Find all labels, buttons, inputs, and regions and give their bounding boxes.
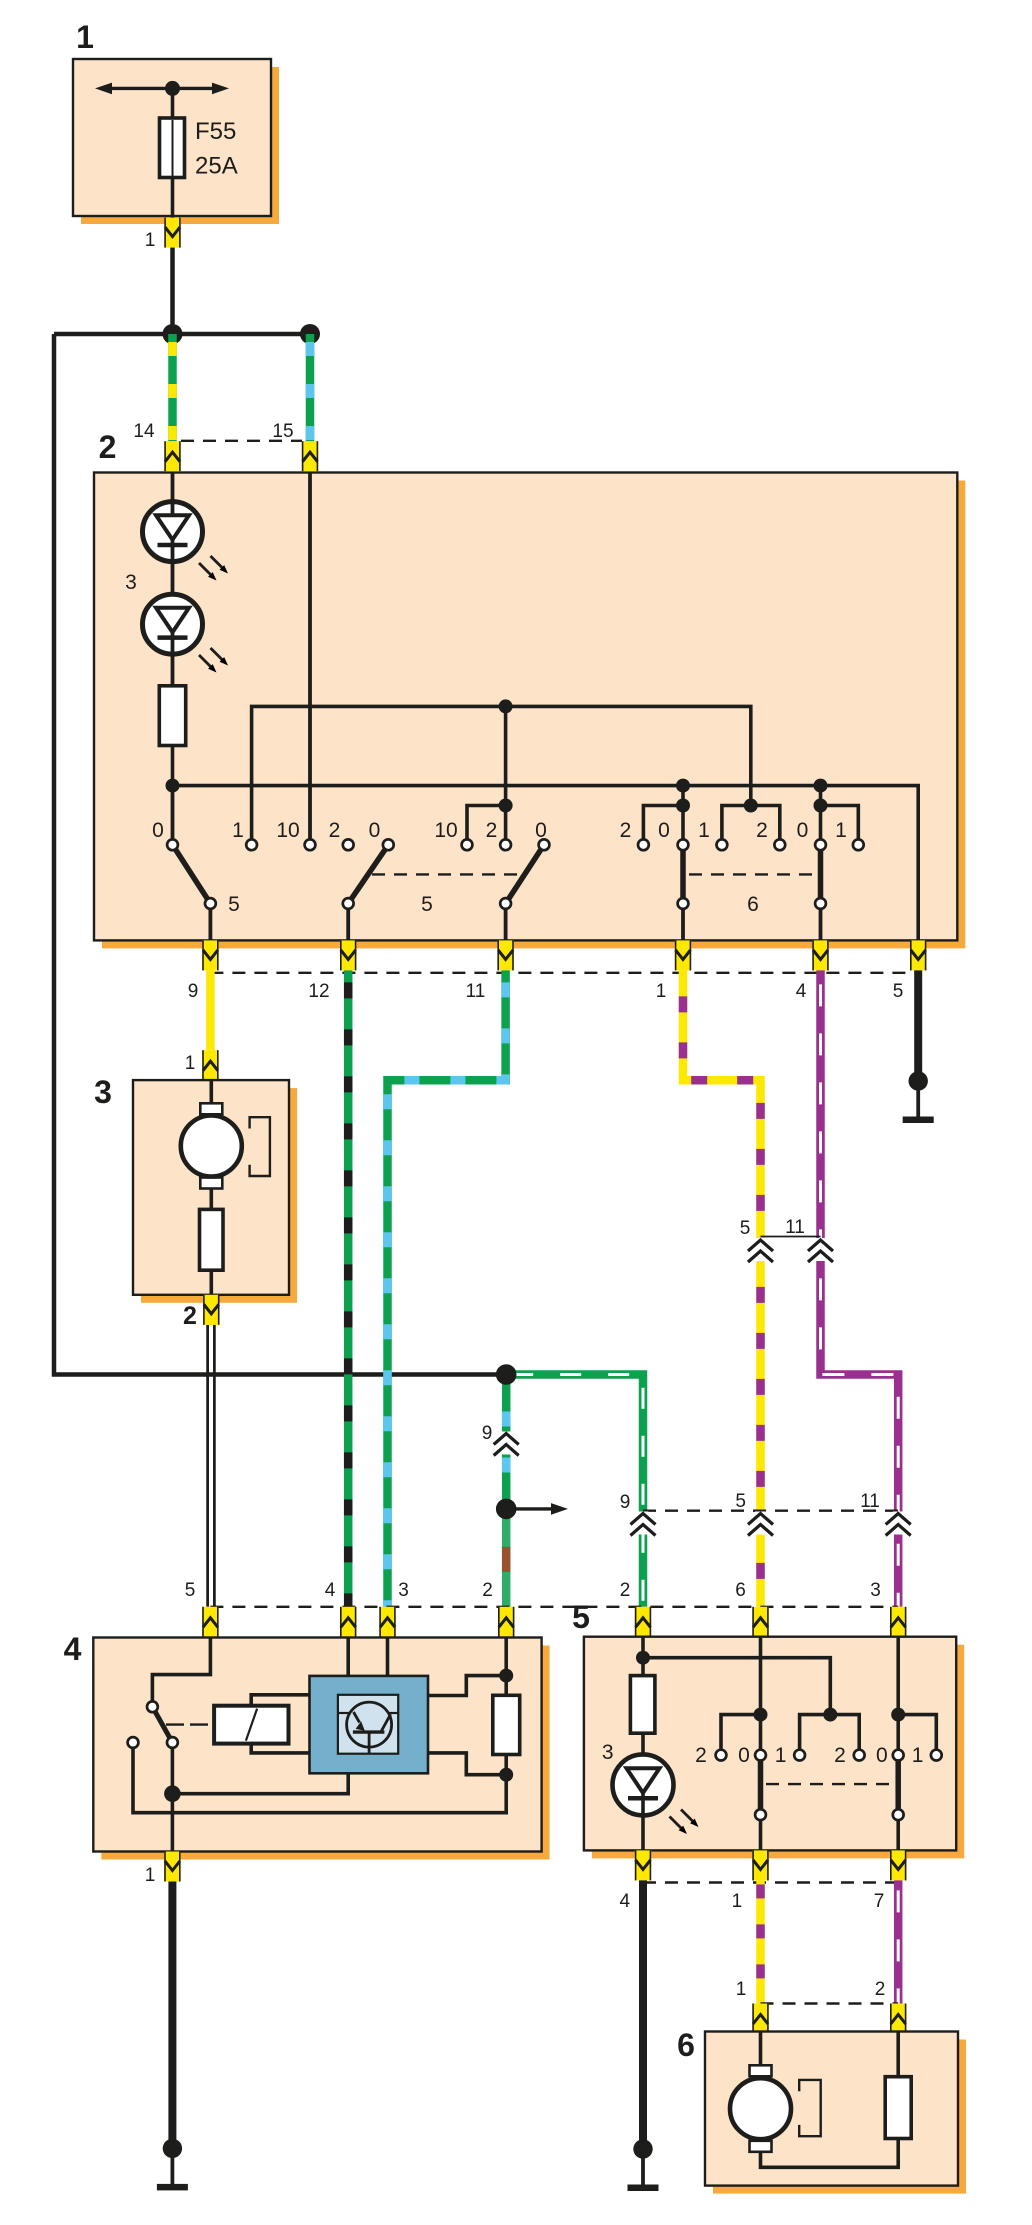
wire motor bottom to resistor bottom bbox=[761, 2139, 899, 2168]
wire black pin1 box4 to ground bbox=[168, 1882, 176, 2149]
LED box5 rays bbox=[670, 1810, 699, 1835]
wire pin15 down to terminal 10 bbox=[308, 473, 312, 845]
svg-text:3: 3 bbox=[398, 1580, 409, 1601]
wire motor to resistor box3 bbox=[210, 1189, 214, 1211]
rail box5 bbox=[643, 1658, 830, 1715]
wire resistor to LED box5 bbox=[641, 1733, 645, 1756]
svg-text:14: 14 bbox=[133, 421, 155, 442]
node bracket x760 box5 bbox=[754, 1708, 768, 1722]
bracket 1-2 middle group bbox=[722, 806, 780, 845]
svg-text:0: 0 bbox=[738, 1744, 750, 1767]
rail 2 horizontal bbox=[173, 786, 919, 941]
wire pin1 box6 to motor bbox=[759, 2032, 763, 2067]
switch contact circles box4 bbox=[128, 1701, 178, 1748]
LED D1 rays bbox=[199, 556, 228, 581]
svg-text:2: 2 bbox=[486, 819, 498, 842]
wire pin4 into bluebox bbox=[346, 1637, 350, 1676]
switch blade 3 bbox=[506, 845, 544, 904]
dashed link blades box5 bbox=[766, 1783, 892, 1785]
dashed connector line breaks row2 bbox=[643, 1509, 898, 1511]
dashed connector line above box6 bbox=[761, 2002, 899, 2004]
relay top lead bbox=[251, 1695, 309, 1706]
svg-text:1: 1 bbox=[656, 981, 667, 1002]
node arrow junction bbox=[496, 1499, 517, 1520]
switch blade box4 bbox=[152, 1707, 172, 1743]
break 9 upper bbox=[494, 1432, 519, 1456]
box 2 (control module) bbox=[94, 473, 957, 941]
svg-text:0: 0 bbox=[369, 819, 381, 842]
connector pin 5 box4 bbox=[202, 1607, 218, 1637]
svg-text:1: 1 bbox=[835, 819, 847, 842]
svg-text:1: 1 bbox=[145, 230, 156, 251]
resistor box5 bbox=[630, 1676, 655, 1734]
svg-text:1: 1 bbox=[732, 1891, 743, 1912]
svg-text:9: 9 bbox=[482, 1423, 493, 1444]
node bracket x683 bbox=[676, 799, 690, 813]
wire pin3 down box5 bbox=[896, 1637, 900, 1749]
motor M box6 bbox=[730, 2065, 821, 2152]
horizontal wire node row bbox=[54, 332, 310, 337]
box 4 shadow bbox=[101, 1646, 549, 1860]
node rail1 x505 bbox=[499, 699, 513, 713]
svg-text:1: 1 bbox=[76, 19, 94, 55]
wire yellow pin9 to box3 bbox=[206, 970, 215, 1050]
switch blade 2 bbox=[348, 845, 388, 904]
LED D1 bbox=[143, 502, 203, 594]
connector pin 6 box5 bbox=[752, 1607, 768, 1637]
svg-text:1: 1 bbox=[736, 1979, 747, 2000]
svg-text:2: 2 bbox=[620, 1580, 631, 1601]
connector pin 2 box6 bbox=[890, 2004, 906, 2034]
wire black pin5 to ground bbox=[914, 970, 922, 1081]
bracket 0-1 right group bbox=[821, 806, 859, 845]
svg-text:9: 9 bbox=[620, 1492, 631, 1513]
wire green/brown to box4 pin2 bbox=[502, 1509, 511, 1607]
connector pins bottom of box2 bbox=[202, 940, 218, 970]
svg-text:1: 1 bbox=[145, 1865, 156, 1886]
resistor in box 2 bbox=[159, 686, 185, 746]
svg-text:2: 2 bbox=[482, 1580, 493, 1601]
connector pin 3 box5 bbox=[890, 1607, 906, 1637]
box 1 (fuse box) bbox=[73, 59, 271, 216]
bracket 1-2 box5 bbox=[800, 1715, 860, 1749]
bluebox right bottom lead bbox=[428, 1753, 506, 1775]
wire green/white junction to box5 pin2 bbox=[506, 1375, 643, 1607]
svg-text:2: 2 bbox=[756, 819, 768, 842]
node A bbox=[163, 324, 183, 344]
wire resistor to pin2 box3 bbox=[210, 1270, 214, 1295]
svg-text:F55: F55 bbox=[195, 118, 236, 145]
wire resistor bottom bbox=[504, 1755, 508, 1775]
connector pin 7 box5 bbox=[890, 1850, 906, 1880]
node bracket x750 bbox=[744, 799, 758, 813]
wire green/lightblue pin11 to box4 pin3 bbox=[388, 970, 506, 1606]
svg-text:5: 5 bbox=[421, 893, 433, 916]
wire bus to fuse bbox=[171, 88, 175, 120]
dashed link blades 2-3 bbox=[372, 873, 527, 875]
dashed connector line below box5 bbox=[643, 1881, 898, 1883]
svg-text:1: 1 bbox=[912, 1744, 924, 1767]
break 11 row1 bbox=[808, 1238, 833, 1262]
svg-text:1: 1 bbox=[232, 819, 244, 842]
node on bus bar bbox=[165, 81, 180, 96]
connector pin 14 bbox=[164, 441, 180, 471]
box 6 shadow bbox=[713, 2040, 966, 2194]
svg-text:5: 5 bbox=[572, 1599, 590, 1635]
wire green/yellow to pin 14 bbox=[168, 334, 177, 441]
node bracket x830 box5 bbox=[823, 1708, 837, 1722]
wire rail1 down to terminal 2 bbox=[504, 706, 508, 844]
arrow to right bbox=[506, 1503, 568, 1515]
svg-text:6: 6 bbox=[735, 1580, 746, 1601]
ground symbol box4 bbox=[157, 2139, 188, 2191]
connector pin 2 box4 bbox=[498, 1607, 514, 1637]
node B bbox=[300, 324, 320, 344]
svg-text:25A: 25A bbox=[195, 153, 238, 180]
wire black pin4 box5 to ground bbox=[639, 1880, 647, 2149]
dashed link blades 4-5 bbox=[689, 873, 814, 875]
box 3 shadow bbox=[141, 1088, 297, 1303]
svg-text:1: 1 bbox=[185, 1053, 196, 1074]
box 2 shadow bbox=[102, 481, 965, 949]
bracket 2-0 box5 bbox=[721, 1715, 761, 1749]
wire purple/white pin4 bbox=[821, 970, 899, 1606]
wire pin1 to node row bbox=[170, 246, 175, 334]
dashed connector line below box2 bbox=[210, 972, 918, 974]
connector pin 2 box5 bbox=[635, 1607, 651, 1637]
relay bottom lead bbox=[251, 1744, 309, 1753]
node rail2 x820 bbox=[814, 779, 828, 793]
wire yellow/purple pin1 to box5 pin6 bbox=[683, 970, 761, 1606]
ground symbol right bbox=[903, 1071, 934, 1123]
switch blade B box5 bbox=[895, 1755, 901, 1815]
svg-text:1: 1 bbox=[698, 819, 710, 842]
wire resistor to rail bbox=[171, 746, 175, 791]
connector pin 15 bbox=[302, 441, 318, 471]
connector pin 1 of box 1 bbox=[164, 218, 180, 248]
wire into motor box3 bbox=[210, 1080, 214, 1105]
svg-text:7: 7 bbox=[874, 1891, 885, 1912]
bluebox right top lead bbox=[428, 1676, 506, 1696]
connector pin 4 box5 bbox=[635, 1850, 651, 1880]
svg-text:6: 6 bbox=[677, 2027, 695, 2063]
wire fuse to pin 1 bbox=[171, 177, 175, 218]
resistor box4 bbox=[493, 1695, 520, 1754]
fuse F55 25A bbox=[160, 118, 185, 178]
svg-text:2: 2 bbox=[875, 1979, 886, 2000]
bracket terminal 10 to node bbox=[467, 806, 506, 845]
node box4 switch bbox=[164, 1785, 181, 1802]
svg-text:2: 2 bbox=[834, 1744, 846, 1767]
connector pin 1 box6 bbox=[752, 2004, 768, 2034]
resistor box3 bbox=[200, 1209, 224, 1270]
break 5 row1 bbox=[748, 1238, 773, 1262]
line between breaks row1 bbox=[761, 1236, 821, 1238]
connector pin 1 of box 3 bbox=[202, 1050, 218, 1080]
wire pin2 box6 to resistor bbox=[896, 2032, 900, 2077]
node bracket x820 bbox=[814, 799, 828, 813]
bracket 2-0 left group bbox=[643, 806, 683, 845]
wire rail2 to terminal 0 (x683) bbox=[681, 786, 685, 844]
node bracket x898 box5 bbox=[891, 1708, 905, 1722]
ground symbol box5 bbox=[628, 2139, 659, 2191]
node rail2 x683 bbox=[676, 779, 690, 793]
wires bottom contacts box5 bbox=[759, 1815, 763, 1852]
LED D2 bbox=[143, 594, 203, 686]
bus bar arrow line bbox=[95, 83, 229, 95]
wire yellow/purple pin1 box5 to box6 bbox=[756, 1880, 765, 2003]
node rail2-resistor bbox=[166, 779, 180, 793]
svg-text:0: 0 bbox=[152, 819, 164, 842]
terminal circles row box2 bbox=[167, 839, 864, 909]
terminal labels box2 bbox=[152, 819, 847, 842]
bracket 0-1 box5 bbox=[898, 1715, 936, 1749]
svg-text:5: 5 bbox=[893, 981, 904, 1002]
svg-text:4: 4 bbox=[796, 981, 807, 1002]
break 5 row2 bbox=[748, 1512, 773, 1536]
svg-text:4: 4 bbox=[620, 1891, 631, 1912]
box 1 shadow bbox=[81, 67, 279, 224]
box 3 (washer pump) bbox=[133, 1080, 289, 1295]
wire pin6 down box5 bbox=[759, 1637, 763, 1749]
svg-text:5: 5 bbox=[228, 893, 240, 916]
svg-text:1: 1 bbox=[775, 1744, 787, 1767]
inner square transistor block bbox=[338, 1695, 398, 1754]
terminal circles box5 bbox=[716, 1750, 942, 1820]
resistor box6 bbox=[885, 2077, 911, 2139]
wire pin14 into box bbox=[171, 473, 175, 504]
svg-text:11: 11 bbox=[466, 981, 486, 1002]
svg-text:2: 2 bbox=[99, 429, 117, 465]
blue electronics box bbox=[310, 1676, 429, 1773]
wire pin5 to switch bbox=[152, 1637, 210, 1701]
terminal labels box5 bbox=[695, 1744, 923, 1767]
switch blade 5 (closed) bbox=[818, 845, 824, 904]
left long wire down bbox=[54, 334, 506, 1375]
connector pin 3 box4 bbox=[379, 1607, 395, 1637]
svg-text:3: 3 bbox=[602, 1741, 614, 1764]
wire pin2 box5 to resistor bbox=[641, 1637, 645, 1676]
svg-text:9: 9 bbox=[188, 981, 199, 1002]
connector pin 1 box5 bbox=[752, 1850, 768, 1880]
node bluebox top lead bbox=[499, 1669, 513, 1683]
svg-text:12: 12 bbox=[308, 981, 329, 1002]
wire green/lightblue junction down bbox=[502, 1375, 511, 1509]
wire pin3 into bluebox bbox=[386, 1637, 390, 1676]
svg-text:2: 2 bbox=[183, 1302, 197, 1330]
svg-text:2: 2 bbox=[329, 819, 341, 842]
wire green/black pin12 to box4 pin4 bbox=[344, 970, 353, 1606]
svg-text:0: 0 bbox=[658, 819, 670, 842]
box 6 (washer pump 2) bbox=[705, 2032, 958, 2186]
wires bottom contacts to box edge bbox=[210, 904, 820, 941]
transistor Q1 bbox=[338, 1702, 398, 1754]
svg-text:11: 11 bbox=[785, 1217, 805, 1238]
connector pin 1 box4 bbox=[164, 1852, 180, 1882]
svg-text:2: 2 bbox=[695, 1744, 707, 1767]
svg-text:11: 11 bbox=[860, 1491, 880, 1512]
svg-text:3: 3 bbox=[870, 1580, 881, 1601]
switch blade 4 (closed) bbox=[680, 845, 686, 904]
svg-text:2: 2 bbox=[620, 819, 632, 842]
LED box5 bbox=[613, 1754, 674, 1851]
motor M box3 bbox=[181, 1103, 270, 1188]
svg-text:5: 5 bbox=[740, 1218, 751, 1239]
svg-text:3: 3 bbox=[125, 571, 137, 594]
svg-text:0: 0 bbox=[876, 1744, 888, 1767]
svg-text:10: 10 bbox=[276, 819, 299, 842]
svg-text:15: 15 bbox=[272, 421, 293, 442]
wire node to terminal 0 bbox=[171, 786, 175, 844]
svg-text:4: 4 bbox=[325, 1580, 336, 1601]
svg-text:10: 10 bbox=[434, 819, 457, 842]
wire rail2 to terminal 0 (x820) bbox=[819, 786, 823, 844]
node box5 top bbox=[636, 1651, 650, 1665]
node resistor bottom bbox=[499, 1768, 513, 1782]
node main junction y1374 bbox=[496, 1364, 517, 1385]
box 5 shadow bbox=[592, 1645, 964, 1859]
dashed connector line above box4/box5 bbox=[210, 1606, 898, 1608]
svg-text:4: 4 bbox=[64, 1631, 82, 1667]
break 11 row2 bbox=[886, 1512, 911, 1536]
connector pin 4 box4 bbox=[340, 1607, 356, 1637]
wire node to pin1 box4 bbox=[171, 1794, 175, 1852]
wire node to bluebox bottom bbox=[172, 1773, 348, 1793]
svg-text:0: 0 bbox=[535, 819, 547, 842]
dashed mech link to relay bbox=[166, 1723, 212, 1725]
dashed connector line pins 14-15 bbox=[181, 440, 302, 442]
svg-text:6: 6 bbox=[747, 893, 759, 916]
wire purple/white pin7 box5 to box6 bbox=[894, 1880, 903, 2003]
connector pin 2 of box 3 bbox=[203, 1295, 219, 1325]
svg-text:5: 5 bbox=[735, 1491, 746, 1512]
relay coil box4 bbox=[214, 1706, 288, 1744]
wire white box3 to box4 pin5 bbox=[206, 1325, 216, 1607]
svg-text:3: 3 bbox=[94, 1074, 112, 1110]
rail 1 horizontal bbox=[252, 706, 751, 844]
wire contact to node box4 bbox=[171, 1743, 175, 1794]
box 5 (switch module) bbox=[584, 1637, 956, 1851]
node bracket x505 bbox=[499, 799, 513, 813]
svg-text:5: 5 bbox=[185, 1580, 196, 1601]
wire pin2 down to resistor bbox=[504, 1637, 508, 1696]
LED D2 rays bbox=[199, 648, 228, 673]
svg-text:0: 0 bbox=[797, 819, 809, 842]
wire green/lightblue to pin 15 bbox=[306, 334, 315, 441]
break 9 row2 bbox=[631, 1512, 656, 1536]
wire left contact down right bbox=[133, 1748, 506, 1813]
box 4 (relay module) bbox=[93, 1638, 541, 1852]
switch blade 1 bbox=[173, 845, 211, 904]
switch blade A box5 bbox=[758, 1755, 764, 1815]
